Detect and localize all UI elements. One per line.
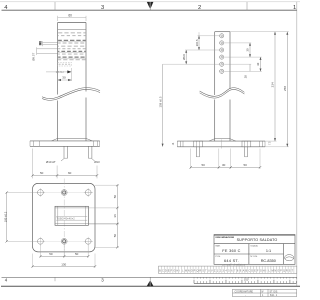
svg-text:Q: Q (283, 270, 285, 273)
svg-text:R: R (286, 270, 288, 273)
svg-text:con qualif. di saldatura: con qualif. di saldatura (222, 263, 246, 266)
svg-text:M: M (271, 270, 273, 273)
svg-text:FE 360 C: FE 360 C (222, 249, 240, 253)
svg-text:100: 100 (244, 277, 249, 281)
svg-text:COORDINATURE: COORDINATURE (235, 290, 254, 293)
svg-text:50: 50 (75, 252, 79, 256)
svg-text:1:1: 1:1 (266, 249, 271, 253)
svg-text:Ø10 AT: Ø10 AT (46, 160, 56, 164)
svg-text:N: N (188, 270, 190, 273)
svg-text:SCALA: SCALA (250, 245, 258, 248)
svg-text:130: 130 (61, 262, 66, 266)
svg-text:36: 36 (113, 214, 117, 218)
svg-text:30: 30 (256, 62, 260, 65)
svg-text:60: 60 (68, 171, 72, 175)
svg-text:50: 50 (113, 195, 117, 199)
svg-text:50: 50 (202, 163, 206, 167)
svg-text:D: D (165, 270, 167, 273)
svg-text:ST. DIS.: ST. DIS. (270, 291, 279, 293)
svg-text:C: C (162, 270, 164, 273)
svg-text:644 ST.: 644 ST. (224, 259, 239, 263)
svg-text:G: G (173, 270, 175, 273)
svg-text:DENOMINAZIONE: DENOMINAZIONE (216, 236, 235, 239)
svg-text:M: M (185, 270, 187, 273)
svg-text:2: 2 (198, 5, 201, 11)
svg-text:D: D (251, 270, 253, 273)
svg-text:Ø6.6: Ø6.6 (182, 54, 186, 60)
svg-text:28: 28 (244, 75, 248, 78)
svg-text:30: 30 (245, 48, 249, 51)
svg-text:TUBO 40×40×2: TUBO 40×40×2 (57, 217, 76, 221)
svg-text:3: 3 (101, 5, 104, 11)
svg-text:644 - 1: 644 - 1 (270, 295, 278, 297)
svg-text:100 ±0.2: 100 ±0.2 (3, 211, 7, 222)
svg-text:158 ±0.5: 158 ±0.5 (159, 96, 163, 107)
svg-text:30: 30 (62, 76, 66, 80)
svg-text:N° DIS.: N° DIS. (250, 256, 258, 258)
svg-text:SUPPORTO SALDATO: SUPPORTO SALDATO (237, 238, 278, 242)
svg-text:C: C (248, 270, 250, 273)
svg-text:1: 1 (293, 5, 296, 11)
svg-text:Q: Q (197, 270, 199, 273)
svg-text:Ø9.5T: Ø9.5T (31, 52, 35, 60)
svg-text:M6 6H: M6 6H (56, 70, 64, 74)
svg-text:O: O (277, 270, 279, 273)
svg-text:RC-8350: RC-8350 (261, 259, 276, 263)
svg-text:MAT.: MAT. (216, 245, 221, 248)
svg-text:N°: N° (262, 291, 265, 293)
svg-text:H: H (263, 270, 265, 273)
svg-text:60: 60 (68, 13, 72, 17)
svg-text:M8: M8 (39, 41, 43, 46)
svg-text:N: N (274, 270, 276, 273)
svg-text:50: 50 (49, 252, 53, 256)
svg-text:Ø13: Ø13 (94, 160, 100, 164)
svg-text:258: 258 (283, 86, 287, 91)
svg-text:U: U (208, 270, 210, 273)
svg-text:G: G (260, 270, 262, 273)
svg-text:O: O (191, 270, 193, 273)
svg-text:50: 50 (113, 234, 117, 238)
svg-text:H: H (176, 270, 178, 273)
svg-text:R: R (199, 270, 201, 273)
svg-text:30: 30 (222, 163, 226, 167)
svg-text:50: 50 (40, 171, 44, 175)
svg-text:30±.5: 30±.5 (195, 39, 199, 46)
svg-text:50: 50 (244, 163, 248, 167)
svg-text:234: 234 (271, 82, 275, 87)
svg-text:POS.: POS. (216, 256, 222, 258)
